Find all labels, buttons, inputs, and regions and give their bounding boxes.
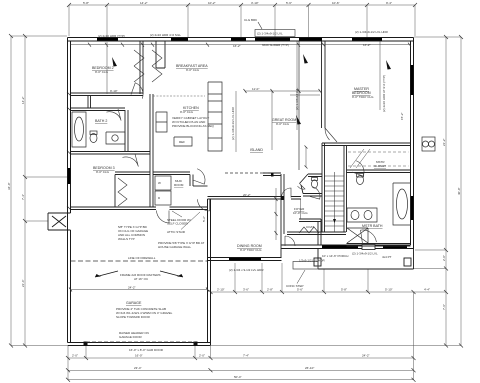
svg-text:24'-2": 24'-2" xyxy=(128,286,136,290)
interior dim: hall y=95 xyxy=(290,94,320,96)
svg-text:5'-8": 5'-8" xyxy=(341,288,347,292)
svg-text:4x4 PT: 4x4 PT xyxy=(382,255,392,259)
interior dim: bedroom2 vertical xyxy=(106,42,108,94)
wall: bath2 right xyxy=(125,110,128,152)
kitchen island HFP xyxy=(174,137,192,146)
svg-text:PROVIDE BLOCKING AS REQ: PROVIDE BLOCKING AS REQ xyxy=(172,124,215,128)
svg-text:2'-0": 2'-0" xyxy=(199,354,205,358)
garage door jamb posts xyxy=(84,342,88,347)
closet chevrons: bedroom2 closet doors xyxy=(134,50,162,82)
wall: top exterior (double line) xyxy=(68,38,414,42)
toilet: powder room xyxy=(312,178,318,189)
svg-text:9'-0" TRAY CLG: 9'-0" TRAY CLG xyxy=(240,248,262,252)
svg-text:9'-0" CLG: 9'-0" CLG xyxy=(276,122,290,126)
window: mstr bath right wall xyxy=(411,196,414,220)
door: powder diagonal swing xyxy=(298,184,306,190)
interior dim: garage width xyxy=(71,289,208,291)
window: master top xyxy=(352,38,382,41)
dimension tie line: bottom-right y=345.5 xyxy=(211,345,461,347)
wall: master closet top xyxy=(322,143,411,146)
svg-text:(2) 1-3/4x9-1/2 LVL: (2) 1-3/4x9-1/2 LVL xyxy=(352,252,378,256)
wall: mud/garage entry jog xyxy=(193,185,208,187)
wall: main bottom right portion (double line) xyxy=(282,245,414,249)
svg-text:16'-0": 16'-0" xyxy=(135,354,143,358)
svg-text:W: W xyxy=(158,181,161,185)
svg-text:9'-0" CLG: 9'-0" CLG xyxy=(95,70,109,74)
stairs down arrow xyxy=(333,219,336,223)
wall: bath2 bottom xyxy=(71,152,151,155)
svg-text:3'-6": 3'-6" xyxy=(243,288,249,292)
tick marks right columns xyxy=(444,35,463,348)
svg-text:CLG BRK: CLG BRK xyxy=(244,18,257,22)
svg-text:LINE OF FIREWALL: LINE OF FIREWALL xyxy=(128,256,156,260)
svg-text:(2) 1-3/4x9-1/2 LVL: (2) 1-3/4x9-1/2 LVL xyxy=(257,32,283,36)
wall: closet / bath divider xyxy=(347,170,411,173)
svg-text:2'-0": 2'-0" xyxy=(442,255,446,261)
svg-text:5'-2": 5'-2" xyxy=(202,216,206,222)
svg-text:WALLS TYP: WALLS TYP xyxy=(118,237,135,241)
conc step rectangle xyxy=(293,262,318,270)
svg-text:2'-0": 2'-0" xyxy=(72,354,78,358)
dimension line: right outer column x=461 xyxy=(460,37,462,346)
tick marks on top dimension row xyxy=(67,3,417,7)
wall: dining bottom (double line) xyxy=(208,258,282,261)
door: master entry diagonal xyxy=(325,128,337,142)
wall: great room south stub xyxy=(263,173,281,176)
wall: garage right (double line) xyxy=(208,199,211,346)
dimension labels: right columns (rotated) xyxy=(442,138,461,310)
dimension line: top row xyxy=(69,4,415,6)
door: powder xyxy=(310,187,322,199)
door: vestibule xyxy=(285,236,295,246)
svg-text:ATTIC STAIR: ATTIC STAIR xyxy=(167,230,186,234)
door: mstr bath entry xyxy=(352,161,367,176)
svg-text:21'-2": 21'-2" xyxy=(442,138,446,146)
window: dining front xyxy=(229,258,261,261)
svg-text:3'-10": 3'-10" xyxy=(251,1,259,5)
interior dim: hall by powder xyxy=(305,147,307,167)
dimension labels: top row xyxy=(83,1,392,5)
dimension tie line: bottom-left at y=345.5 xyxy=(11,345,67,347)
svg-text:(2) 2x10 HDR (TYP): (2) 2x10 HDR (TYP) xyxy=(98,34,125,38)
svg-text:5'-10": 5'-10" xyxy=(385,288,393,292)
master closet rods dashed xyxy=(348,152,409,166)
door: mud entry xyxy=(193,169,208,184)
svg-text:14'-2": 14'-2" xyxy=(140,1,148,5)
stairs center rail xyxy=(334,172,336,232)
window: master right wall xyxy=(411,65,414,95)
wall: bedroom3 closet left xyxy=(114,175,116,208)
svg-text:10' x 14'-6" PORCH: 10' x 14'-6" PORCH xyxy=(322,254,348,258)
svg-text:REF: REF xyxy=(179,140,185,144)
door: front entry swing xyxy=(361,228,377,244)
wall: left wing / kitchen divider xyxy=(150,94,153,207)
door: front entry threshold xyxy=(362,245,375,250)
svg-text:(2) 2x10 HDR AT 9'-0 (TYP): (2) 2x10 HDR AT 9'-0 (TYP) xyxy=(382,75,386,112)
wall: stair left xyxy=(322,143,325,232)
svg-text:9'-0" CLG: 9'-0" CLG xyxy=(96,170,110,174)
window: porch right of door xyxy=(383,245,407,248)
dimension tie line: left at y=221 xyxy=(25,220,48,222)
window: great room top xyxy=(255,38,290,41)
porch posts xyxy=(314,258,321,266)
wall: dining top xyxy=(208,197,283,200)
tick marks mid row y=292 xyxy=(209,290,449,294)
wall: left wing bottom / garage top xyxy=(71,207,208,210)
wall: hall linen closet xyxy=(88,96,91,109)
svg-text:7'-6": 7'-6" xyxy=(442,304,446,310)
AC units outside right wall xyxy=(422,137,435,151)
door: bedroom3 entry xyxy=(122,154,138,170)
kitchen upper cabinets dashed xyxy=(153,95,205,97)
wall: stair right / closet left xyxy=(344,146,347,233)
svg-text:MSTR BATH: MSTR BATH xyxy=(362,224,383,228)
kitchen right cabinet run xyxy=(208,82,222,151)
svg-text:15'-2": 15'-2" xyxy=(400,112,404,120)
header label box top xyxy=(255,22,295,37)
interior dim: master inside xyxy=(297,42,380,131)
tick marks on left wall junctions xyxy=(67,92,71,210)
svg-text:1/2x9-1/2 LVL HDR: 1/2x9-1/2 LVL HDR xyxy=(299,259,326,263)
wall: foyer top segment xyxy=(291,197,301,200)
dimension tie line: right y=250 xyxy=(415,249,446,251)
mstr shower diagonal xyxy=(347,228,368,243)
svg-text:10'-2": 10'-2" xyxy=(208,1,216,5)
svg-text:7'-4": 7'-4" xyxy=(243,354,249,358)
wall: powder room xyxy=(300,174,323,196)
flag: top master window xyxy=(386,60,391,70)
dimension extension drops from top row xyxy=(69,5,415,38)
svg-text:9'-0" TRAY CLG: 9'-0" TRAY CLG xyxy=(352,95,374,99)
wall: bedroom3 closet top xyxy=(115,172,150,175)
wall: foyer / stair bottom xyxy=(287,232,346,235)
svg-text:16'-2": 16'-2" xyxy=(363,43,371,47)
svg-text:CONC STEP: CONC STEP xyxy=(286,284,304,288)
svg-text:10'-6": 10'-6" xyxy=(332,1,340,5)
dimension labels: bottom rows xyxy=(72,354,370,380)
wall: left exterior (double line) xyxy=(68,38,71,343)
wall: kitchen/mud divider xyxy=(153,172,190,175)
svg-text:SLOPE TOWARD DOOR: SLOPE TOWARD DOOR xyxy=(116,315,151,319)
wall: hall bottom / bath top xyxy=(71,108,126,111)
dimension tie line: left at y=177 xyxy=(25,176,67,178)
svg-text:GARAGE DOOR: GARAGE DOOR xyxy=(119,335,143,339)
washer dryer mud room xyxy=(155,176,171,205)
svg-text:11'-0": 11'-0" xyxy=(252,87,259,91)
wall: mud room right xyxy=(190,175,193,187)
svg-text:23'-4": 23'-4" xyxy=(134,366,142,370)
dimension line: left outer column x=11 xyxy=(10,36,12,346)
svg-text:(2) 1-3/4x14 LVL: (2) 1-3/4x14 LVL xyxy=(295,88,299,110)
interior dim: great room 11'0 xyxy=(245,91,320,150)
svg-text:(2) 1-3/4x9-1/2 LVL HDR: (2) 1-3/4x9-1/2 LVL HDR xyxy=(355,30,389,34)
svg-text:14'-2": 14'-2" xyxy=(21,96,25,104)
dimension line: bottom row2 y=370.3 xyxy=(68,369,414,371)
wall: dining right xyxy=(281,174,284,258)
door: bath2 entry xyxy=(106,109,121,124)
dimension line: lower mid row y=292 xyxy=(211,263,447,292)
mstr toilet xyxy=(357,176,364,185)
svg-text:9'-10": 9'-10" xyxy=(110,89,118,93)
interior dim: dining xyxy=(275,188,277,240)
svg-text:2'-8": 2'-8" xyxy=(267,288,273,292)
dimension tie line: right y=268.5 xyxy=(413,268,446,270)
svg-text:(2) 2x10 HDR 4'-6 SILL: (2) 2x10 HDR 4'-6 SILL xyxy=(150,33,181,37)
window: hall top xyxy=(299,38,322,41)
mstr tub xyxy=(393,183,411,225)
window: kitchen top xyxy=(231,38,246,41)
kitchen left appliance column xyxy=(156,112,167,132)
dashed ceiling break great room xyxy=(225,172,270,174)
vanity bath2 xyxy=(106,132,125,144)
svg-text:4'-4": 4'-4" xyxy=(424,288,430,292)
dimension line: left column x=25 xyxy=(24,36,26,346)
dimension extension drops bottom xyxy=(68,292,414,380)
svg-text:(2) 1-3/4x9-1/2 LVL HDR: (2) 1-3/4x9-1/2 LVL HDR xyxy=(231,106,235,140)
svg-text:26'-10": 26'-10" xyxy=(305,366,314,370)
dimension line: right column x=446 xyxy=(445,37,447,346)
master closet diagonal racks xyxy=(350,149,370,168)
tick marks left columns xyxy=(9,34,27,348)
wall: bedroom2 right xyxy=(140,41,143,94)
svg-text:HOUSE GARAGE WALL: HOUSE GARAGE WALL xyxy=(158,245,192,249)
svg-text:7'-4": 7'-4" xyxy=(21,194,25,200)
svg-text:(2) 1-3/4 x 9-1/2 LVL HDR: (2) 1-3/4 x 9-1/2 LVL HDR xyxy=(229,268,264,272)
svg-text:5'-8": 5'-8" xyxy=(83,1,89,5)
svg-text:34'-0": 34'-0" xyxy=(7,182,11,190)
window: bedroom2 top xyxy=(97,38,118,41)
tick marks bottom rows xyxy=(66,356,416,382)
svg-text:40'-0": 40'-0" xyxy=(457,187,461,195)
north arrows / flags xyxy=(112,54,391,125)
svg-text:3068 SLIDER (TYP): 3068 SLIDER (TYP) xyxy=(262,43,289,47)
firewall dashed line xyxy=(71,260,208,262)
window: breakfast xyxy=(171,38,188,41)
interior dim: kitchen header vertical xyxy=(235,91,237,152)
dimension labels: mid row y=292 xyxy=(217,288,430,292)
dimension tie line: top-left to house xyxy=(11,35,67,37)
door: coat closet bifold xyxy=(299,227,319,233)
beam line: great room / master xyxy=(298,42,300,171)
wall: foyer bottom closet xyxy=(299,219,321,245)
svg-text:BATH 2: BATH 2 xyxy=(95,119,107,123)
closet chevrons: bedroom3 closet xyxy=(118,178,127,206)
wall: pantry column right of bedroom2 xyxy=(156,41,165,68)
svg-text:16'-0" x 8'-0" GAR DOOR: 16'-0" x 8'-0" GAR DOOR xyxy=(129,348,164,352)
annotation arrow: frame roof xyxy=(95,271,183,277)
dimension line: bottom row3 y=379.7 xyxy=(68,379,414,381)
fireplace bump-out on left wall xyxy=(48,213,71,230)
svg-text:ISLAND: ISLAND xyxy=(250,148,263,152)
wall: garage bottom (double line) xyxy=(68,343,211,346)
svg-text:21'-4": 21'-4" xyxy=(21,279,25,287)
dimension tie line: top-right xyxy=(414,36,461,38)
svg-text:5'-6": 5'-6" xyxy=(286,1,292,5)
dimension line: bottom row1 y=358 xyxy=(68,357,414,359)
porch outline xyxy=(318,249,414,270)
interior dim: foyer vertical xyxy=(300,199,302,219)
svg-text:GARAGE: GARAGE xyxy=(126,301,142,305)
door: mudroom to dining xyxy=(198,199,210,211)
svg-text:SELF CLOSER: SELF CLOSER xyxy=(167,222,189,226)
garage door dashed opening xyxy=(86,341,195,343)
svg-text:9'-0" CLG: 9'-0" CLG xyxy=(186,68,200,72)
wall: bedroom2 bottom / hall top xyxy=(71,93,144,96)
flag: bedroom2 xyxy=(112,57,117,67)
svg-text:ROOM: ROOM xyxy=(174,183,184,187)
interior dim: full width row y=44.7 xyxy=(71,44,411,46)
door: bedroom2 entry xyxy=(131,83,147,99)
svg-text:AT 16" OC: AT 16" OC xyxy=(134,277,149,281)
toilet bath2 xyxy=(90,134,97,143)
flag: hall beam xyxy=(303,54,308,64)
svg-text:20'-2": 20'-2" xyxy=(243,193,251,197)
wall: master left xyxy=(322,41,326,128)
wall: mstr bath bottom xyxy=(347,244,411,247)
svg-text:9'-0" CLG: 9'-0" CLG xyxy=(180,110,194,114)
svg-text:24'-2": 24'-2" xyxy=(362,354,370,358)
stairs treads xyxy=(325,176,345,226)
wall: right exterior (double line) xyxy=(411,38,414,249)
svg-text:2'-10": 2'-10" xyxy=(217,288,225,292)
svg-text:5'-6": 5'-6" xyxy=(297,288,303,292)
mstr vanity xyxy=(347,208,377,222)
door: foyer to kitchen hall xyxy=(282,188,292,198)
window: bedroom3 left wall xyxy=(68,168,71,184)
flag: master xyxy=(296,115,301,125)
door: mud to garage xyxy=(157,211,170,224)
dimension labels: left columns (rotated) xyxy=(7,96,25,287)
tub bath2 xyxy=(72,112,86,147)
svg-text:50'-4": 50'-4" xyxy=(234,375,242,379)
svg-text:9'-4": 9'-4" xyxy=(386,1,392,5)
jamb: dining NE corner xyxy=(281,196,284,200)
window: porch left of door xyxy=(322,245,358,248)
